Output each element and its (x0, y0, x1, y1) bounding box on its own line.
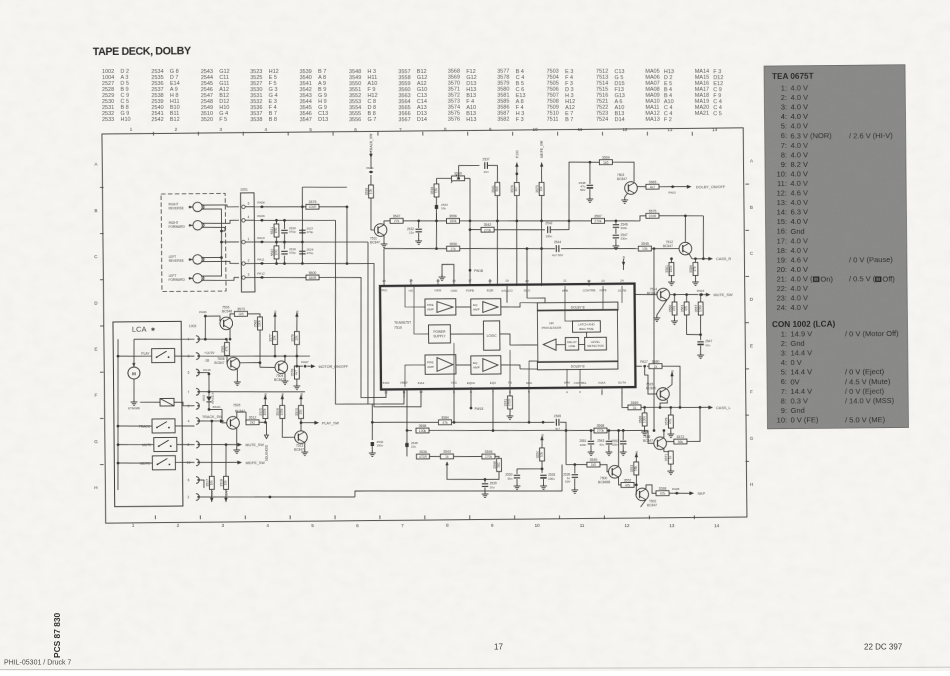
IC internal block LOGIC (483, 321, 500, 350)
wire 7516 collector (663, 431, 665, 438)
wire 3584 gnd (694, 275, 696, 279)
svg-text:AMP: AMP (473, 307, 480, 311)
svg-text:4.0 V: 4.0 V (790, 169, 808, 178)
capacitor 2545 (554, 414, 561, 431)
wire pin23 drop (602, 286, 605, 310)
svg-text:VREF: VREF (400, 381, 408, 385)
svg-text:F 2: F 2 (664, 117, 672, 123)
wire cap 2532 stub (418, 221, 420, 228)
op-amp/IC U7510 TEA0675T outline (380, 284, 635, 390)
wire 162 left (575, 161, 599, 164)
wire 3540 left (436, 177, 451, 179)
junction (659, 406, 662, 409)
wire pin6 stub (509, 387, 511, 396)
svg-text:4: 4 (188, 419, 190, 423)
schematic border frame (102, 128, 747, 523)
junction (229, 338, 232, 341)
svg-text:9:: 9: (781, 160, 787, 169)
svg-text:B: B (750, 205, 753, 210)
junction PA17 (643, 365, 646, 368)
svg-text:10k: 10k (539, 186, 543, 192)
wire to 5575 (640, 216, 646, 221)
svg-text:BC847: BC847 (647, 503, 657, 507)
svg-text:3:: 3: (781, 349, 787, 358)
wire 7504 collector (284, 356, 286, 362)
junction (568, 220, 571, 223)
svg-text:10k: 10k (369, 189, 373, 195)
wire relay to pin9 (174, 402, 194, 406)
svg-text:1002: 1002 (189, 324, 197, 328)
voltage table box (764, 65, 908, 429)
wire motor sig b (307, 365, 311, 367)
svg-text:P103: P103 (515, 150, 519, 158)
svg-text:3550: 3550 (449, 242, 457, 246)
svg-text:14.4 V: 14.4 V (790, 387, 812, 396)
junction (515, 220, 518, 223)
ground (667, 468, 674, 474)
junction (275, 219, 278, 222)
wire play sig (301, 422, 315, 424)
junction (590, 429, 593, 432)
supply arrow 10V (210, 490, 214, 502)
wire cap gnd (608, 445, 610, 449)
svg-text:DOLBY B: DOLBY B (571, 306, 585, 310)
wire 7500 collector (617, 431, 620, 467)
wire 2550 stub (516, 469, 518, 474)
resistor 3578 (290, 366, 299, 379)
wire 3584 top (694, 259, 696, 263)
svg-text:/ 2.6 V (HI-V): / 2.6 V (HI-V) (849, 131, 893, 140)
resistor 3538 (656, 487, 669, 496)
svg-text:27k: 27k (394, 219, 400, 223)
svg-text:0 V (FE): 0 V (FE) (790, 415, 819, 424)
test point PA10 (257, 236, 265, 244)
capacitor (299, 230, 305, 233)
ground (282, 378, 289, 384)
svg-text:F 3: F 3 (516, 117, 524, 123)
svg-text:B: B (94, 208, 97, 213)
supply arrow (515, 162, 518, 169)
svg-text:4.0 V: 4.0 V (790, 236, 808, 245)
connector 1002 pins (186, 336, 201, 501)
ground (131, 399, 138, 405)
svg-text:14.4 V: 14.4 V (790, 348, 812, 357)
svg-text:8:: 8: (781, 396, 787, 405)
svg-text:4.0 V: 4.0 V (790, 303, 808, 312)
svg-text:3545: 3545 (641, 242, 649, 246)
junction (622, 429, 625, 432)
svg-text:PA11: PA11 (257, 257, 264, 261)
svg-text:1: 1 (248, 237, 250, 241)
wire 5521-5520 (275, 237, 277, 246)
capacitor (587, 185, 593, 188)
svg-text:24: 24 (620, 279, 624, 283)
wire 3577 bottom (274, 345, 276, 357)
junction (208, 390, 211, 393)
IC internal block LATCH AND REG TIME (572, 321, 600, 333)
svg-text:CONTRB: CONTRB (583, 288, 596, 292)
wire pin2 line (264, 263, 347, 265)
svg-text:Gnd: Gnd (790, 339, 804, 348)
svg-text:3520: 3520 (201, 117, 213, 123)
junction (259, 361, 262, 364)
svg-text:EQFA: EQFA (467, 381, 475, 385)
svg-text:3559: 3559 (602, 156, 610, 160)
wire motor to gnd (133, 379, 135, 399)
wire pin1 to CASS_L (622, 387, 628, 408)
svg-text:3556: 3556 (449, 214, 457, 218)
junction (117, 462, 120, 465)
wire pin13 drop (383, 249, 386, 286)
inductor 5520 (270, 246, 279, 259)
svg-text:G: G (750, 436, 754, 441)
svg-text:2542: 2542 (151, 117, 163, 123)
svg-text:PA03: PA03 (668, 190, 676, 194)
svg-text:IND5: IND5 (435, 288, 442, 292)
svg-text:D14: D14 (615, 117, 625, 123)
svg-text:4.0 V: 4.0 V (790, 284, 808, 293)
wire track out (199, 420, 221, 422)
junction (296, 365, 299, 368)
wire 2532 gnd (371, 446, 373, 450)
wire 5520 bottom (275, 259, 277, 263)
transistor 7503 (617, 173, 637, 195)
svg-text:2542: 2542 (545, 221, 552, 225)
wire head3 return (203, 256, 222, 258)
wire to DOLBY flag (659, 185, 688, 187)
svg-text:/ 5.0 V (ME): / 5.0 V (ME) (845, 415, 886, 424)
svg-text:3567: 3567 (398, 117, 410, 123)
svg-text:270k: 270k (594, 219, 602, 223)
junction (685, 293, 688, 296)
svg-text:MA21: MA21 (695, 111, 709, 117)
svg-text:9:: 9: (781, 406, 787, 415)
wire pin6 rise (509, 350, 512, 387)
wire logic to dolby (500, 334, 537, 346)
ground (605, 449, 612, 455)
wire top link (302, 186, 347, 189)
svg-text:47k: 47k (672, 306, 676, 312)
svg-text:MA13: MA13 (645, 117, 659, 123)
wire cap 2520 bottom (283, 234, 285, 242)
wire to 7516 base (627, 430, 654, 443)
transistor 7505 (227, 416, 240, 429)
wire 2550 gnd (516, 479, 518, 483)
supply arrow VB (281, 393, 285, 402)
svg-text:M: M (132, 371, 136, 376)
svg-text:PW18: PW18 (474, 407, 483, 411)
svg-text:INXA: INXA (598, 381, 605, 385)
LCA box (113, 321, 183, 506)
svg-text:SUPPLY: SUPPLY (433, 334, 446, 338)
IC internal block EQ AMP 2 (471, 356, 501, 375)
junction (541, 468, 544, 471)
svg-text:VB: VB (273, 310, 277, 314)
svg-text:BC848B: BC848B (598, 480, 611, 484)
svg-text:100k: 100k (419, 429, 427, 433)
junction (565, 429, 568, 432)
solenoid connector arrow (264, 435, 268, 439)
svg-text:PA08: PA08 (257, 201, 265, 205)
svg-text:ME/FE_SW: ME/FE_SW (245, 461, 265, 465)
resistor 3565 (646, 180, 659, 189)
resistor 3578 (664, 415, 673, 428)
junction (663, 429, 666, 432)
wire head2 return (203, 227, 225, 231)
resistor 5575 (646, 209, 659, 218)
wire 7505 emitter (236, 428, 238, 447)
wire pin11 stub (403, 389, 405, 398)
junction (301, 241, 304, 244)
svg-text:VB: VB (540, 434, 544, 438)
resistor 3503 (295, 405, 304, 418)
svg-text:PCS 87 830: PCS 87 830 (52, 612, 62, 658)
svg-text:4:: 4: (781, 358, 787, 367)
ground (697, 352, 704, 358)
wire play to pin3 (175, 355, 195, 357)
IC internal block PRE AMP 2 (425, 355, 456, 375)
junction (204, 338, 207, 341)
test point PA01 (366, 166, 374, 174)
wire head4 to pin3 (203, 277, 240, 280)
svg-text:19: 19 (505, 279, 509, 283)
svg-text:MUTE: MUTE (142, 443, 152, 447)
junction (492, 429, 495, 432)
svg-text:1:: 1: (781, 84, 787, 93)
wire to 7505 base (209, 409, 227, 423)
svg-text:180R: 180R (308, 276, 317, 280)
wire delay to level (579, 344, 585, 346)
svg-text:5575: 5575 (649, 209, 657, 213)
svg-text:10u: 10u (441, 206, 446, 210)
transistor 7504 (275, 361, 288, 374)
wire pin2 long line (198, 495, 355, 498)
wire 3541 down to IC (497, 196, 499, 286)
junction (528, 421, 531, 424)
svg-text:4.0 V: 4.0 V (790, 198, 808, 207)
svg-text:17: 17 (468, 279, 472, 283)
svg-text:4: 4 (248, 215, 250, 219)
ground (415, 238, 422, 244)
capacitor 2537 (482, 157, 489, 174)
svg-text:CASS_L: CASS_L (716, 406, 731, 410)
junction head common A (220, 230, 223, 233)
junction (669, 406, 672, 409)
svg-text:VCC: VCC (451, 381, 458, 385)
wire 3503 to 7513 (300, 418, 302, 431)
wire 3508 bottom (225, 489, 227, 495)
svg-text:1k5: 1k5 (238, 312, 244, 316)
svg-text:CON 1002 (LCA): CON 1002 (LCA) (772, 319, 836, 329)
svg-text:Gnd: Gnd (790, 406, 804, 415)
svg-text:4k7: 4k7 (294, 370, 298, 375)
supply arrow VB (635, 451, 639, 460)
wire vb stub (622, 266, 624, 270)
ground (293, 383, 300, 389)
resistor 3546 (482, 450, 495, 459)
capacitor 2546 (613, 222, 628, 230)
switch MUTE (154, 437, 177, 451)
ground (692, 279, 699, 285)
svg-text:0.3 V: 0.3 V (790, 396, 808, 405)
wire pin20 drop (527, 286, 545, 303)
junction (684, 214, 687, 217)
svg-text:B12: B12 (170, 117, 180, 123)
wire to mute arrow (704, 294, 706, 296)
junction (301, 262, 304, 265)
svg-text:BAS316: BAS316 (210, 392, 214, 403)
motor M (128, 363, 140, 379)
transistor 7515 (657, 388, 670, 401)
wire mid tap (276, 241, 302, 243)
svg-text:5:: 5: (781, 368, 787, 377)
resistor 3558 (416, 424, 429, 433)
wire 3581 gnd (670, 276, 672, 280)
svg-text:14: 14 (712, 127, 718, 132)
svg-text:H10: H10 (120, 117, 130, 123)
wire mefe left (118, 462, 152, 465)
IC top pin numbers and names (381, 276, 627, 294)
svg-text:13: 13 (667, 127, 673, 132)
svg-text:16:: 16: (777, 227, 788, 236)
wire 7504 emitter (284, 373, 286, 378)
wire 3539 to 7511 base (371, 198, 375, 230)
wire eq2 out (501, 365, 520, 369)
svg-text:LINE: LINE (569, 344, 576, 348)
svg-text:100n: 100n (580, 443, 587, 447)
ground (369, 450, 376, 456)
wire bus 249 left a (384, 248, 453, 249)
resistor 3568 (594, 424, 607, 433)
svg-text:ME/FE: ME/FE (140, 462, 151, 466)
svg-text:BC847: BC847 (214, 361, 224, 365)
svg-text:3582: 3582 (497, 117, 509, 123)
wire pin18 stub (489, 279, 491, 286)
resistor 3581 (221, 342, 230, 355)
svg-text:10:: 10: (776, 169, 787, 178)
supply arrow VB (540, 434, 544, 443)
wire pin11 drop long (406, 389, 407, 457)
svg-text:100n: 100n (545, 234, 552, 238)
svg-text:4k7: 4k7 (650, 185, 656, 189)
svg-text:BC847: BC847 (294, 447, 304, 451)
wire row 422 end (560, 422, 566, 430)
scan edge artifact (0, 667, 950, 669)
svg-text:PA05: PA05 (672, 487, 680, 491)
resistor 3536 (416, 450, 429, 459)
svg-text:4.0 V: 4.0 V (790, 141, 808, 150)
wire 7506 base path (205, 316, 220, 339)
svg-text:50V: 50V (565, 480, 570, 484)
transistor 7516 (654, 437, 667, 450)
svg-text:AMP: AMP (427, 365, 434, 369)
wire pin22 stub (588, 280, 590, 286)
svg-text:3542: 3542 (484, 223, 492, 227)
signal arrow CASS_L (708, 406, 713, 410)
svg-text:6.3 V (NOR): 6.3 V (NOR) (790, 131, 832, 140)
svg-text:14: 14 (714, 523, 720, 528)
resistor 3549 (587, 458, 600, 467)
resistor 3543 (440, 450, 453, 459)
supply arrow VB (299, 393, 303, 402)
svg-text:10k: 10k (209, 480, 213, 486)
wire cap stub (608, 431, 610, 441)
svg-text:/ 0.5 V (: / 0.5 V ( (849, 274, 876, 283)
wire PA17 right (647, 365, 649, 367)
svg-text:BC847: BC847 (663, 244, 673, 248)
svg-text:4.0 V (: 4.0 V ( (790, 274, 813, 283)
svg-text:REVERSE: REVERSE (169, 206, 184, 210)
wire 3578 top (670, 407, 672, 415)
svg-text:10k: 10k (642, 247, 648, 251)
svg-text:2545: 2545 (554, 414, 561, 418)
svg-text:PA17: PA17 (640, 360, 648, 364)
wire track to pin4 (175, 425, 195, 427)
svg-text:SKP: SKP (698, 492, 706, 496)
wire VB to 7515 collector (667, 379, 672, 388)
wire pin2 stub (601, 389, 603, 395)
junction coils mid (275, 241, 278, 244)
signal arrow MUTE_SW lca (237, 443, 242, 447)
svg-text:4k7: 4k7 (514, 186, 518, 191)
capacitor 2539 (563, 472, 578, 480)
svg-text:47k: 47k (225, 346, 229, 352)
svg-text:4u7 50V: 4u7 50V (552, 253, 563, 257)
diode 6002 BAS316 (201, 392, 214, 403)
wire mute left (118, 443, 154, 446)
trimmer arrow 3543 (445, 461, 448, 465)
svg-text:1k: 1k (445, 455, 449, 459)
resistor 3544 (493, 458, 502, 471)
svg-text:3: 3 (579, 390, 581, 394)
svg-text:7524: 7524 (596, 117, 608, 123)
wire 3557 top (700, 295, 702, 302)
tape head 3 (169, 255, 204, 265)
wire drop 566 (565, 431, 568, 465)
wire 3551 gnd (509, 409, 511, 413)
IC internal block POWER SUPPLY (428, 325, 450, 343)
wire 3575 to node (319, 207, 348, 264)
svg-text:DETECTOR: DETECTOR (587, 344, 604, 348)
svg-text:D13: D13 (318, 117, 328, 123)
transistor 7502 (636, 488, 649, 501)
svg-text:27k: 27k (450, 247, 456, 251)
wire 3553 down (635, 475, 638, 494)
svg-text:H: H (750, 482, 753, 487)
wire mefe to pin10 (175, 461, 194, 463)
wire vcc rise (453, 343, 456, 387)
capacitor 2543 (597, 439, 612, 447)
wire 7506 emitter (229, 329, 231, 340)
resistor 3574 (510, 182, 519, 195)
resistor 3550 (447, 242, 460, 251)
resistor 3542 (481, 223, 494, 232)
svg-text:22 DC 397: 22 DC 397 (864, 643, 903, 652)
svg-text:Off): Off) (882, 274, 895, 283)
wire 3512 feed (245, 412, 247, 422)
svg-text:MUTE_SW: MUTE_SW (245, 443, 264, 447)
wire 5521 top (275, 220, 277, 224)
svg-text:VB: VB (295, 310, 299, 314)
IC internal block DOLBY B bottom bar (537, 361, 618, 370)
ground (540, 483, 547, 489)
wire common to pin1 (221, 241, 239, 243)
signal arrow CASS_R (708, 257, 713, 261)
svg-text:7:: 7: (781, 141, 787, 150)
wire 3549 left (566, 463, 587, 465)
svg-text:B 8: B 8 (269, 117, 277, 123)
wire cap 2532 gnd (418, 233, 420, 238)
